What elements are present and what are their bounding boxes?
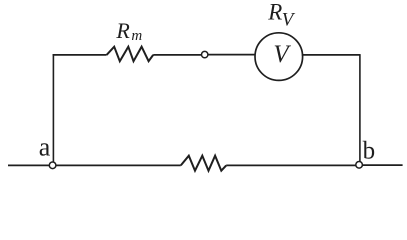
svg-text:R: R <box>267 0 282 24</box>
wire from R_m to top node <box>153 54 201 56</box>
wire from node a to bottom resistor <box>56 164 181 166</box>
wire bottom-left (edge to node a) <box>8 164 49 166</box>
svg-text:R: R <box>115 18 130 43</box>
node a (open circle) <box>49 162 56 169</box>
wire left vertical <box>52 54 54 162</box>
resistor R2 (bottom) <box>181 156 226 171</box>
voltmeter U1 (circle) <box>255 33 303 81</box>
svg-text:b: b <box>363 138 376 165</box>
wire from top node to voltmeter <box>208 54 256 56</box>
wire right vertical <box>359 54 361 161</box>
svg-text:V: V <box>282 10 296 31</box>
wire from node b to right edge <box>363 164 403 166</box>
resistor R1 (R_m) <box>107 47 154 62</box>
wire from voltmeter to top-right corner <box>302 54 360 56</box>
node (top junction, open circle) <box>202 51 208 57</box>
node b (open circle) <box>356 162 363 169</box>
wire top-left horizontal <box>53 54 107 56</box>
svg-text:m: m <box>131 28 142 44</box>
wire from bottom resistor to node b <box>226 164 355 166</box>
svg-text:a: a <box>39 133 51 162</box>
